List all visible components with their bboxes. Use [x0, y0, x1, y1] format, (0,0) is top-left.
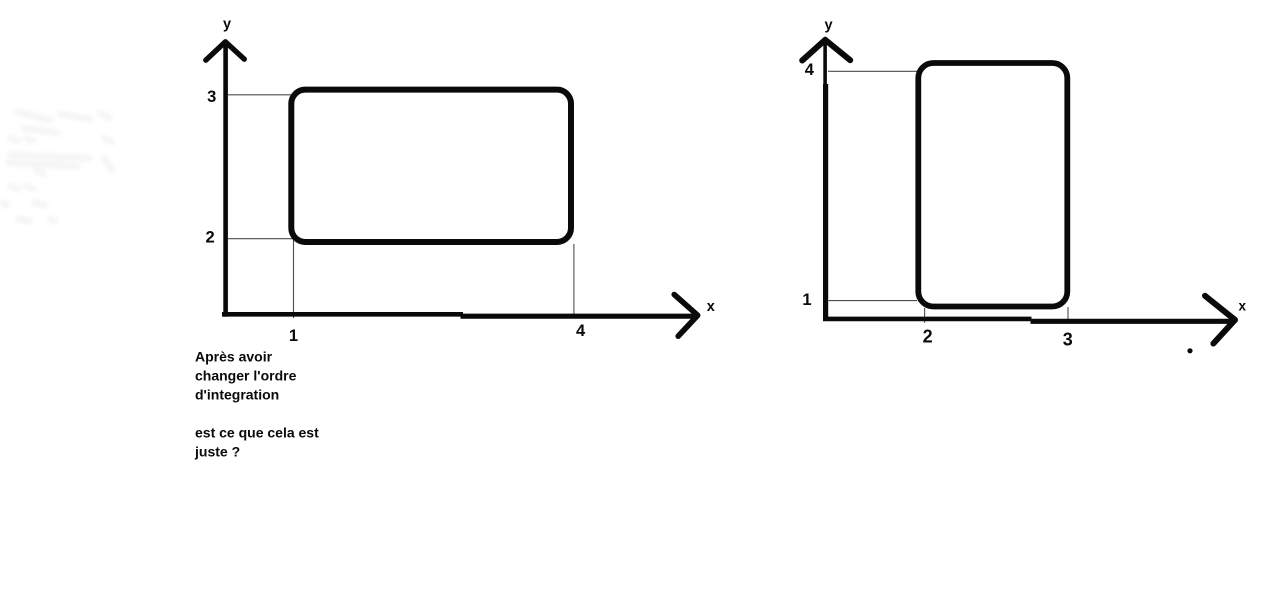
svg-text:changer l'ordre: changer l'ordre [195, 368, 297, 384]
left y-axis arrowhead [206, 42, 245, 60]
right y-axis arrowhead [802, 40, 850, 61]
svg-text:x: x [1238, 299, 1246, 314]
left region rectangle [1,4]x[2,3] [291, 90, 571, 242]
left x-axis segment 1 [222, 312, 463, 317]
svg-text:1: 1 [289, 327, 298, 345]
left y-axis line [223, 44, 228, 317]
right x-axis arrowhead [1205, 296, 1235, 344]
faint eraser smudge left margin [2, 112, 112, 221]
right gridline y=4 [828, 70, 917, 72]
svg-text:3: 3 [207, 88, 216, 106]
left gridline x=4 [573, 244, 575, 318]
svg-text:2: 2 [923, 327, 933, 347]
svg-text:y: y [824, 18, 832, 34]
left x-axis arrowhead [674, 295, 698, 337]
svg-text:y: y [223, 17, 231, 33]
right x-axis segment 1 [823, 317, 1032, 322]
right gridline x=2 [924, 308, 926, 323]
svg-text:4: 4 [805, 61, 815, 79]
left x-axis segment 2 [461, 314, 697, 319]
left gridline x=1 [293, 239, 295, 318]
svg-text:Après avoir: Après avoir [195, 349, 273, 365]
svg-text:est ce que cela est: est ce que cela est [195, 424, 319, 440]
svg-text:x: x [707, 299, 715, 315]
right y-axis main line [823, 84, 828, 321]
right gridline y=1 [829, 300, 918, 302]
right gridline x=3 [1067, 307, 1069, 319]
svg-text:1: 1 [802, 291, 811, 309]
svg-text:juste ?: juste ? [194, 443, 240, 459]
svg-text:2: 2 [206, 229, 215, 247]
stray ink dot [1187, 348, 1192, 353]
right x-axis segment 2 [1031, 319, 1234, 324]
svg-text:3: 3 [1063, 330, 1073, 350]
svg-text:d'integration: d'integration [195, 387, 279, 403]
right region rectangle [2,3]x[1,4] [918, 63, 1067, 307]
left gridline y=2 [228, 238, 294, 240]
right y-axis upper thin segment [823, 42, 827, 88]
left gridline y=3 [228, 94, 293, 96]
svg-text:4: 4 [576, 322, 586, 340]
